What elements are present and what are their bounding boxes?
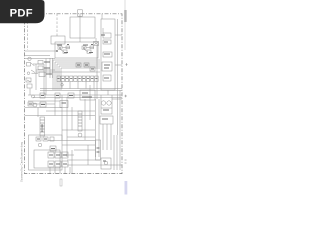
svg-text:PDF: PDF xyxy=(10,8,33,20)
svg-text:Scanned by CamScanner dwg: Scanned by CamScanner dwg xyxy=(20,142,24,182)
